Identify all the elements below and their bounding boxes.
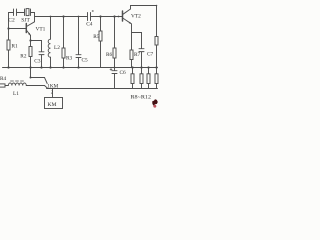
svg-text:KM: KM	[48, 102, 57, 108]
svg-text:VT2: VT2	[131, 14, 141, 20]
svg-text:R5: R5	[93, 34, 100, 40]
svg-text:R6: R6	[106, 52, 113, 58]
svg-text:R2: R2	[20, 54, 27, 60]
svg-text:C7: C7	[147, 52, 154, 58]
svg-text:C5: C5	[82, 58, 89, 64]
svg-text:R1: R1	[12, 44, 19, 50]
svg-text:*: *	[92, 10, 95, 16]
svg-text:C3: C3	[34, 59, 41, 65]
svg-text:1KM: 1KM	[47, 83, 58, 89]
svg-text:R8~R12: R8~R12	[131, 95, 152, 101]
svg-text:R3: R3	[66, 56, 73, 62]
svg-text:C6: C6	[120, 70, 127, 76]
svg-text:L2: L2	[54, 45, 60, 51]
svg-text:C2: C2	[8, 18, 15, 24]
svg-text:R4: R4	[0, 76, 7, 82]
svg-text:R7: R7	[134, 52, 141, 58]
svg-text:C4: C4	[86, 22, 93, 28]
svg-text:SJT: SJT	[21, 18, 30, 24]
svg-text:VT1: VT1	[36, 27, 46, 33]
svg-text:2: 2	[51, 89, 53, 94]
svg-text:L1: L1	[13, 91, 19, 97]
